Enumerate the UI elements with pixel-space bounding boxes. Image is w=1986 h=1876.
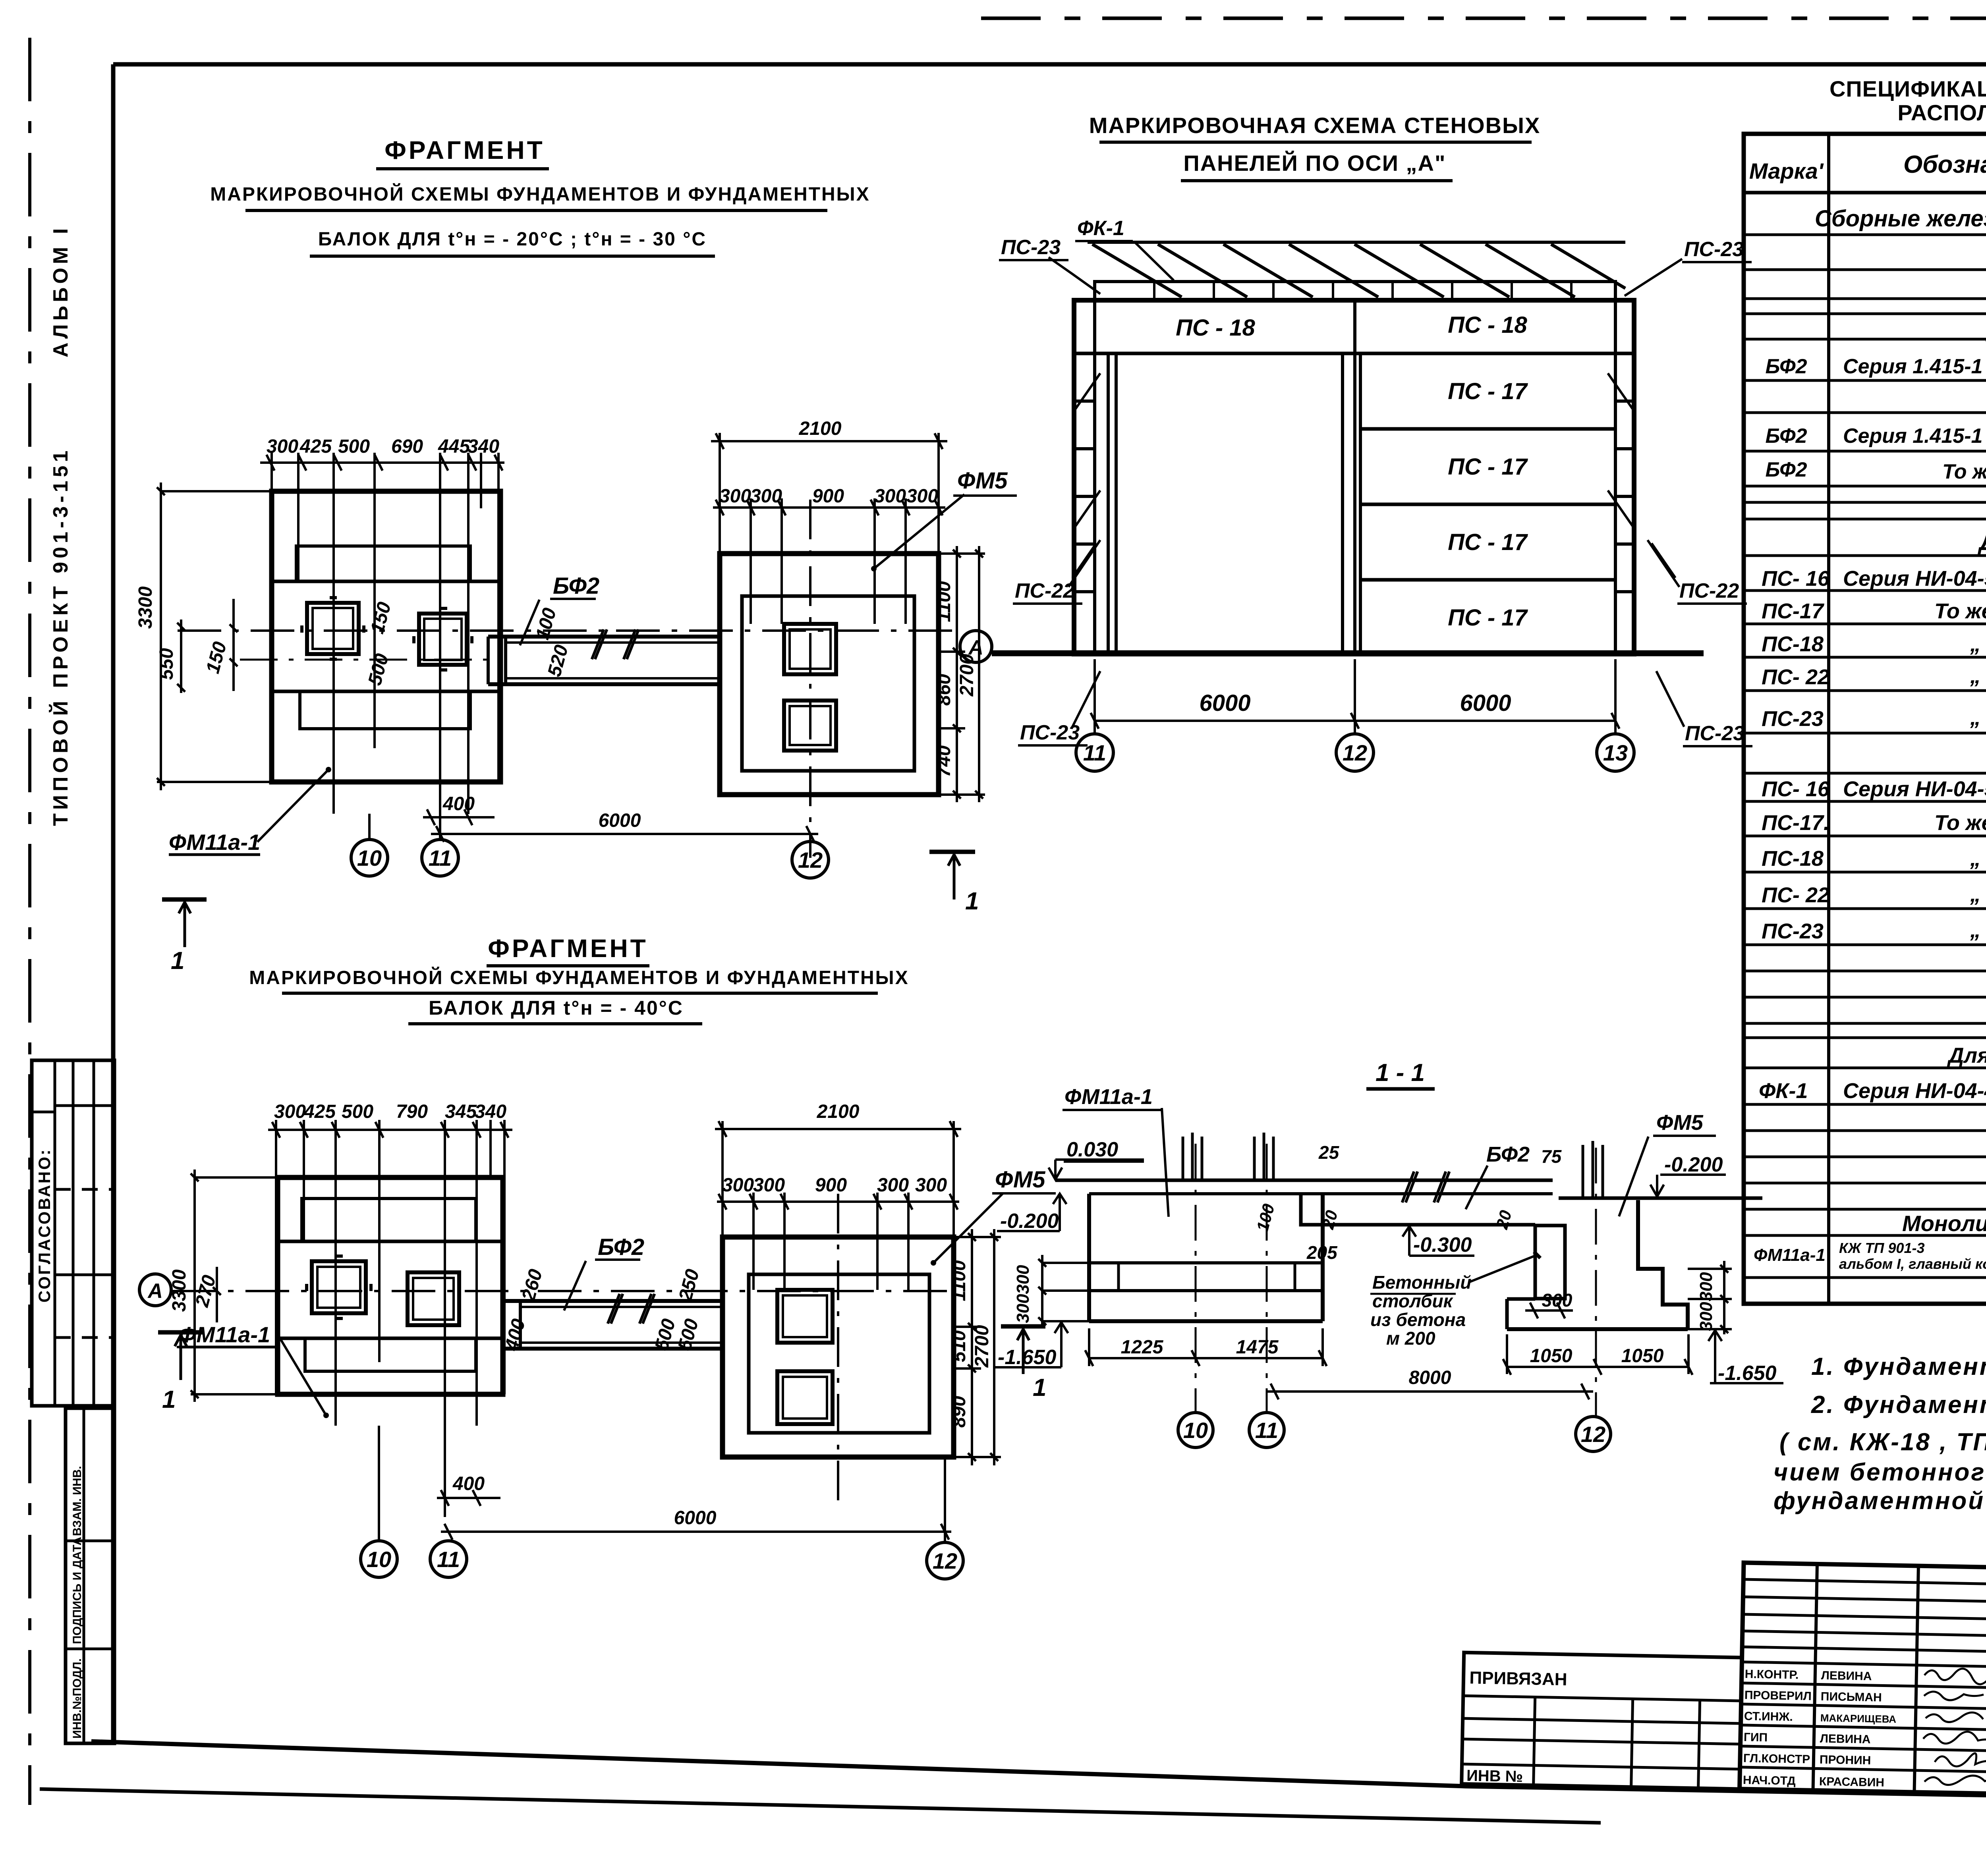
anchor bolts column 10 xyxy=(1183,1133,1202,1180)
FM5 right dims 1100 860 740 2700 xyxy=(939,546,985,802)
beam BF2 between foundations xyxy=(488,629,720,684)
plan2 dim 400 xyxy=(437,1490,500,1506)
svg-text:МАКАРИЩЕВА: МАКАРИЩЕВА xyxy=(1820,1712,1897,1725)
axis circle 11 xyxy=(422,840,458,876)
svg-text:550: 550 xyxy=(156,648,177,680)
svg-text:3300: 3300 xyxy=(169,1269,190,1312)
svg-text:ФМ5: ФМ5 xyxy=(995,1167,1045,1193)
foundation FM11a-1 outer outline xyxy=(157,491,500,782)
svg-text:340: 340 xyxy=(475,1101,506,1122)
svg-text:2100: 2100 xyxy=(817,1101,860,1122)
level mark -0.300 xyxy=(1403,1226,1474,1256)
svg-text:900: 900 xyxy=(812,486,844,507)
plan2 footing A xyxy=(307,1256,371,1318)
plan2 FM5 footing D xyxy=(777,1371,833,1424)
svg-text:300: 300 xyxy=(1696,1302,1716,1331)
svg-text:11: 11 xyxy=(1255,1418,1278,1443)
signature rows xyxy=(1740,1662,1986,1772)
plan1 label underlines xyxy=(550,496,1017,599)
svg-text:„: „ xyxy=(1970,664,1981,688)
svg-text:ПС-18: ПС-18 xyxy=(1762,847,1824,870)
FM5 footing D xyxy=(784,701,836,751)
svg-text:340: 340 xyxy=(468,436,499,457)
svg-text:1100: 1100 xyxy=(933,581,954,622)
svg-text:БФ2: БФ2 xyxy=(1766,458,1807,481)
svg-text:чием бетонного столбика для: чием бетонного столбика для опирания xyxy=(1773,1459,1986,1486)
svg-text:БАЛОК ДЛЯ t°н = - 20°С ; t°н =: БАЛОК ДЛЯ t°н = - 20°С ; t°н = - 30 °С xyxy=(318,229,707,250)
svg-text:ПРОНИН: ПРОНИН xyxy=(1820,1753,1871,1767)
svg-text:Серия 1.415-1 Вып.1: Серия 1.415-1 Вып.1 xyxy=(1843,355,1986,378)
specification table grid xyxy=(1744,134,1986,1304)
svg-text:1: 1 xyxy=(965,888,979,915)
plan1 grid extension lines xyxy=(272,453,498,838)
foundation FM11a-1 outline plan2 xyxy=(191,1177,503,1394)
plan2 FM5 dim row 300 300 900 300 300 xyxy=(717,1193,959,1290)
svg-text:Бетонный: Бетонный xyxy=(1372,1272,1472,1293)
title of wall panel marking scheme xyxy=(1089,113,1541,181)
svg-text:2700: 2700 xyxy=(972,1325,993,1368)
elevation main outline xyxy=(1074,300,1634,654)
svg-text:ПИСЬМАН: ПИСЬМАН xyxy=(1821,1690,1882,1704)
svg-text:11: 11 xyxy=(1083,740,1106,765)
svg-text:900: 900 xyxy=(815,1175,847,1196)
post dim 300 xyxy=(1525,1303,1573,1318)
svg-text:„: „ xyxy=(1970,632,1981,656)
column axes verticals xyxy=(1196,1144,1267,1413)
svg-text:300: 300 xyxy=(915,1175,947,1196)
plan2 label underlines xyxy=(177,1193,1056,1347)
svg-text:6000: 6000 xyxy=(674,1507,717,1529)
signature table verticals xyxy=(1813,1564,1986,1794)
svg-text:То же: То же xyxy=(1934,599,1986,623)
right foundation section FM5 xyxy=(1507,1200,1688,1329)
level mark 0.030 xyxy=(1049,1160,1144,1179)
plan1 dim 6000 xyxy=(431,826,818,842)
plan1 top dimension line 300 425 500 690 445 340 xyxy=(260,455,504,471)
svg-text:ПС-17.: ПС-17. xyxy=(1762,811,1830,835)
title of fragment scheme -40C xyxy=(249,934,909,1024)
svg-text:ВЗАМ. ИНВ.: ВЗАМ. ИНВ. xyxy=(71,1466,84,1536)
roof hatch diagonals xyxy=(1088,242,1625,297)
left margin: inventory strip table xyxy=(66,1408,114,1743)
svg-text:БФ2: БФ2 xyxy=(1766,425,1807,448)
svg-text:А: А xyxy=(147,1280,163,1303)
floor line right (-0.200) xyxy=(1559,1197,1762,1200)
beam BF2 in section xyxy=(1301,1172,1535,1225)
svg-text:ФМ11а-1: ФМ11а-1 xyxy=(1754,1245,1826,1265)
svg-text:ГИП: ГИП xyxy=(1744,1731,1768,1744)
level mark -0.200 right xyxy=(1650,1175,1726,1197)
plan2 FM5 dim 2100 xyxy=(715,1121,961,1237)
plan2 upper step xyxy=(302,1199,476,1241)
svg-text:10: 10 xyxy=(1183,1418,1208,1443)
svg-text:ПС-23: ПС-23 xyxy=(1020,721,1080,744)
svg-text:300: 300 xyxy=(1013,1294,1033,1323)
svg-text:890: 890 xyxy=(949,1396,970,1428)
svg-text:ПС- 16: ПС- 16 xyxy=(1762,567,1830,591)
svg-text:12: 12 xyxy=(1343,740,1367,765)
svg-text:ПС-23: ПС-23 xyxy=(1762,919,1824,943)
pривязан table xyxy=(1462,1652,1742,1789)
svg-text:-1.650: -1.650 xyxy=(998,1346,1057,1369)
svg-text:300: 300 xyxy=(906,486,938,507)
svg-text:БФ2: БФ2 xyxy=(1486,1143,1530,1166)
svg-text:11: 11 xyxy=(429,845,452,870)
svg-text:БФ2: БФ2 xyxy=(598,1234,644,1260)
plan2 section mark right xyxy=(1001,1326,1045,1374)
plan2 lower step xyxy=(305,1338,476,1371)
svg-text:300: 300 xyxy=(750,486,782,507)
svg-text:БАЛОК ДЛЯ t°н = - 40°С: БАЛОК ДЛЯ t°н = - 40°С xyxy=(429,997,684,1019)
PS-18 row line xyxy=(1074,352,1634,355)
svg-text:ФМ5: ФМ5 xyxy=(957,468,1008,494)
section title 1-1 underline xyxy=(1366,1087,1435,1091)
sheet bottom edge line xyxy=(40,1789,1601,1823)
elevation panel texts xyxy=(1176,312,1528,716)
svg-text:СОГЛАСОВАНО:: СОГЛАСОВАНО: xyxy=(35,1148,54,1303)
svg-text:альбом I, главный корпус: альбом I, главный корпус xyxy=(1839,1256,1986,1272)
svg-text:Для t°н: - 20°С; t°н = - 30°С: Для t°н: - 20°С; t°н = - 30°С; t°н = - 4… xyxy=(1947,1044,1986,1067)
plan2 top dimension line 300 425 500 790 345 340 xyxy=(268,1122,512,1138)
level mark -1.650 left xyxy=(995,1322,1068,1367)
section texts xyxy=(998,1059,1777,1388)
svg-text:Серия 1.415-1 Вып.1: Серия 1.415-1 Вып.1 xyxy=(1843,425,1986,448)
axis circle texts plan1 xyxy=(357,845,823,872)
svg-text:БФ2: БФ2 xyxy=(1766,355,1807,378)
section axis circles xyxy=(1178,1413,1611,1451)
svg-text:ПРИВЯЗАН: ПРИВЯЗАН xyxy=(1469,1668,1567,1689)
BF2 label leader xyxy=(520,600,539,645)
svg-text:1050: 1050 xyxy=(1530,1345,1573,1366)
specification table title xyxy=(1830,76,1986,125)
frieze stones band FK-1 xyxy=(1095,282,1615,300)
svg-text:МАРКИРОВОЧНОЙ СХЕМЫ ФУНДАМЕНТО: МАРКИРОВОЧНОЙ СХЕМЫ ФУНДАМЕНТОВ И ФУНДАМ… xyxy=(249,967,909,988)
svg-text:Марка': Марка' xyxy=(1749,158,1824,183)
svg-text:1 - 1: 1 - 1 xyxy=(1376,1059,1425,1087)
svg-text:300: 300 xyxy=(877,1175,909,1196)
spec row: FK-1 xyxy=(1759,1079,1986,1103)
elevation axis circles xyxy=(960,631,1634,771)
svg-text:690: 690 xyxy=(391,436,423,457)
svg-text:ТИПОВОЙ ПРОЕКТ 901-3-151: ТИПОВОЙ ПРОЕКТ 901-3-151 xyxy=(49,447,72,826)
plan2 footing B xyxy=(408,1272,459,1325)
svg-text:БФ2: БФ2 xyxy=(553,573,599,599)
svg-text:0.030: 0.030 xyxy=(1066,1138,1118,1161)
FM11a-1 label leader xyxy=(169,767,331,855)
signature rows texts xyxy=(1743,1668,1897,1789)
plan2 axis circle 11 xyxy=(430,1541,467,1577)
column footing B xyxy=(414,608,472,670)
svg-text:300: 300 xyxy=(267,436,298,457)
svg-text:ПОДПИСЬ И ДАТА: ПОДПИСЬ И ДАТА xyxy=(71,1537,84,1644)
svg-text:„: „ xyxy=(1970,847,1981,870)
signature squiggles xyxy=(1922,1668,1986,1786)
section circle texts xyxy=(1183,1418,1605,1447)
svg-text:75: 75 xyxy=(1541,1146,1562,1167)
svg-text:ПС - 17: ПС - 17 xyxy=(1448,529,1528,555)
plan2 axis circle 10 xyxy=(361,1426,397,1577)
svg-text:ПАНЕЛЕЙ ПО ОСИ „А": ПАНЕЛЕЙ ПО ОСИ „А" xyxy=(1183,151,1446,176)
svg-text:2100: 2100 xyxy=(799,418,842,439)
plan2 FM5 outline xyxy=(723,1237,954,1457)
svg-text:Серия НИ-04-4 Вып.23: Серия НИ-04-4 Вып.23 xyxy=(1843,1079,1986,1103)
plan2 FM5 footing C xyxy=(777,1290,833,1343)
plan2 dimension texts xyxy=(162,1101,1046,1529)
svg-text:300: 300 xyxy=(1542,1290,1573,1310)
axis A line (dash-dot) xyxy=(178,629,960,632)
svg-text:1050: 1050 xyxy=(1621,1345,1664,1366)
PS-17 row lines xyxy=(1360,429,1615,580)
svg-text:РАСПОЛОЖЕННОЙ НА ЛИСТЕ: РАСПОЛОЖЕННОЙ НА ЛИСТЕ xyxy=(1897,100,1986,125)
svg-text:То же: То же xyxy=(1934,811,1986,835)
svg-text:425: 425 xyxy=(303,1101,336,1122)
section label underlines xyxy=(1063,1110,1716,1162)
plan2 FM11a-1 label leader xyxy=(179,1334,329,1418)
svg-text:То же: То же xyxy=(1942,460,1986,483)
svg-text:300: 300 xyxy=(1013,1265,1033,1294)
svg-text:МАРКИРОВОЧНОЙ СХЕМЫ ФУНДАМЕНТО: МАРКИРОВОЧНОЙ СХЕМЫ ФУНДАМЕНТОВ И ФУНДАМ… xyxy=(210,183,870,205)
plan2 circle texts xyxy=(147,1280,957,1573)
svg-text:ИНВ.№ПОДЛ.: ИНВ.№ПОДЛ. xyxy=(71,1658,84,1739)
spec rows: PS group 1 xyxy=(1762,567,1986,731)
section mark 1 left xyxy=(162,899,207,947)
foundation FM5 outline xyxy=(720,554,939,795)
svg-text:КРАСАВИН: КРАСАВИН xyxy=(1819,1775,1885,1789)
svg-text:Серия НИ-04-5 Вып.6: Серия НИ-04-5 Вып.6 xyxy=(1843,777,1986,801)
svg-text:510: 510 xyxy=(949,1330,970,1362)
svg-text:1: 1 xyxy=(171,947,184,975)
plan2 right dims 1100 510 890 2700 xyxy=(954,1229,1001,1465)
section label leaders xyxy=(1162,1108,1648,1282)
spec row: BF2 F6B-12 xyxy=(1766,413,1986,450)
floor slab lines left xyxy=(1055,1180,1553,1194)
svg-text:ФМ11а-1: ФМ11а-1 xyxy=(179,1322,270,1347)
title of fragment scheme -20C -30C xyxy=(210,136,870,256)
svg-text:ПС-22: ПС-22 xyxy=(1015,579,1074,602)
plan2 dim 6000 xyxy=(441,1524,951,1540)
plan2 section mark left xyxy=(158,1332,203,1380)
svg-text:ФМ11а-1: ФМ11а-1 xyxy=(1064,1085,1153,1109)
svg-text:12: 12 xyxy=(798,847,823,872)
svg-text:Сборные железобетонные элемент: Сборные железобетонные элементы xyxy=(1815,206,1986,232)
svg-text:ПС- 22: ПС- 22 xyxy=(1762,665,1830,689)
axis circle 12 xyxy=(792,841,829,878)
svg-text:6000: 6000 xyxy=(599,810,641,831)
foundation FM11a-1 lower step xyxy=(300,691,470,729)
svg-text:205: 205 xyxy=(1306,1242,1338,1263)
plan2 axis circle A xyxy=(139,1274,171,1306)
svg-text:Серия НИ-04-5 Вып.5: Серия НИ-04-5 Вып.5 xyxy=(1843,567,1986,591)
spec row: FM11a-1 xyxy=(1754,1240,1986,1272)
svg-text:ПС-23: ПС-23 xyxy=(1684,238,1744,261)
svg-text:ПС-23: ПС-23 xyxy=(1762,707,1824,731)
svg-text:13: 13 xyxy=(1603,740,1628,765)
axis 12 vertical xyxy=(1595,1148,1597,1417)
concrete post label xyxy=(1370,1272,1472,1349)
left margin: approval stamp table xyxy=(32,1060,114,1406)
svg-text:ПС-22: ПС-22 xyxy=(1679,579,1739,602)
svg-text:ПС-23: ПС-23 xyxy=(1001,236,1061,259)
svg-text:ПС - 18: ПС - 18 xyxy=(1448,312,1527,338)
svg-text:25: 25 xyxy=(1318,1142,1340,1163)
svg-text:6000: 6000 xyxy=(1460,690,1511,716)
svg-text:ПС - 17: ПС - 17 xyxy=(1448,605,1528,631)
level mark -1.650 right xyxy=(1708,1330,1783,1383)
center divider xyxy=(1355,300,1360,654)
svg-text:400: 400 xyxy=(452,1473,485,1494)
plan1 dim 400 xyxy=(423,809,495,825)
svg-text:1100: 1100 xyxy=(949,1260,970,1301)
svg-text:фундаментной балки БФ2 .: фундаментной балки БФ2 . xyxy=(1773,1487,1986,1515)
svg-text:СТ.ИНЖ.: СТ.ИНЖ. xyxy=(1744,1710,1793,1724)
FM5 label leader xyxy=(874,494,964,569)
svg-text:1: 1 xyxy=(162,1386,176,1413)
svg-text:ЛЕВИНА: ЛЕВИНА xyxy=(1821,1669,1872,1683)
end strips xyxy=(1074,300,1634,654)
svg-text:-0.300: -0.300 xyxy=(1413,1233,1472,1256)
svg-text:ФМ5: ФМ5 xyxy=(1656,1111,1704,1135)
sheet top dashed edge xyxy=(981,17,1986,20)
svg-text:СПЕЦИФИКАЦИЯ ЭЛЕМЕНТОВ К МАРКИ: СПЕЦИФИКАЦИЯ ЭЛЕМЕНТОВ К МАРКИРОВОЧНОЙ С… xyxy=(1830,76,1986,101)
plan2 left dim 3300 xyxy=(191,1170,221,1402)
svg-text:ПС-23: ПС-23 xyxy=(1685,722,1745,745)
svg-text:3300: 3300 xyxy=(135,586,156,629)
plan1 dimension texts xyxy=(135,418,1008,975)
concrete post xyxy=(1535,1226,1565,1299)
secondary axis line xyxy=(240,659,488,661)
svg-text:ИНВ №: ИНВ № xyxy=(1466,1767,1523,1785)
svg-text:500: 500 xyxy=(338,436,370,457)
elevation side labels xyxy=(1001,217,1745,745)
BF2 label leader plan2 xyxy=(564,1261,586,1310)
spec row: BF2 F6B-2 xyxy=(1766,458,1986,483)
upper empty rows xyxy=(1742,1579,1986,1652)
svg-text:ЛЕВИНА: ЛЕВИНА xyxy=(1820,1732,1871,1746)
svg-text:400: 400 xyxy=(442,793,475,814)
svg-text:445: 445 xyxy=(438,436,470,457)
svg-text:ФРАГМЕНТ: ФРАГМЕНТ xyxy=(488,934,648,963)
anchor bolts column 12 xyxy=(1583,1141,1603,1198)
section bottom dims 1225 1475 xyxy=(1085,1328,1327,1366)
elevation label underlines xyxy=(999,241,1752,746)
svg-text:АЛЬБОМ I: АЛЬБОМ I xyxy=(49,225,72,357)
plan2 axis circle 12 xyxy=(927,1457,963,1579)
svg-text:ПС- 16: ПС- 16 xyxy=(1762,777,1830,801)
level mark -0.200 left xyxy=(997,1194,1066,1231)
svg-text:ГЛ.КОНСТР: ГЛ.КОНСТР xyxy=(1743,1752,1810,1766)
svg-text:860: 860 xyxy=(933,674,954,706)
svg-text:Н.КОНТР.: Н.КОНТР. xyxy=(1745,1668,1799,1681)
label leaders elevation xyxy=(1049,241,1684,727)
svg-text:„: „ xyxy=(1970,918,1981,942)
axis A baseline xyxy=(992,650,1704,656)
svg-text:ПС - 17: ПС - 17 xyxy=(1448,378,1528,404)
svg-text:МАРКИРОВОЧНАЯ СХЕМА СТЕНОВЫХ: МАРКИРОВОЧНАЯ СХЕМА СТЕНОВЫХ xyxy=(1089,113,1541,138)
svg-text:300: 300 xyxy=(874,486,906,507)
anchor bolts column 11 xyxy=(1254,1133,1273,1180)
svg-text:ПС-18: ПС-18 xyxy=(1762,632,1824,656)
svg-text:12: 12 xyxy=(1581,1422,1605,1447)
left foundation section FM11a-1 xyxy=(1089,1194,1323,1321)
svg-text:ПС-17: ПС-17 xyxy=(1762,599,1825,623)
svg-text:НАЧ.ОТД: НАЧ.ОТД xyxy=(1743,1774,1796,1787)
spec table header texts xyxy=(1749,142,1986,187)
section bottom dims 1050 1050 xyxy=(1503,1334,1692,1375)
svg-text:ПС - 18: ПС - 18 xyxy=(1176,315,1255,341)
svg-text:11: 11 xyxy=(437,1547,460,1572)
svg-text:ФК-1: ФК-1 xyxy=(1077,217,1124,240)
svg-text:740: 740 xyxy=(933,745,954,777)
svg-text:1475: 1475 xyxy=(1236,1337,1279,1358)
svg-text:-0.200: -0.200 xyxy=(1664,1153,1723,1176)
svg-text:1225: 1225 xyxy=(1121,1337,1164,1358)
svg-text:345: 345 xyxy=(445,1101,477,1122)
svg-text:6000: 6000 xyxy=(1199,690,1250,716)
title block outline xyxy=(1740,1563,1986,1805)
section left dims 300 300 xyxy=(1038,1255,1089,1328)
svg-text:Монолитные железобетонные конс: Монолитные железобетонные конструкции xyxy=(1902,1211,1986,1236)
plan2 FM5 center vertical xyxy=(837,1194,839,1509)
plan1 left dim 3300 xyxy=(157,483,238,790)
sheet left dash-dot edge xyxy=(28,38,31,1805)
section dim 8000 xyxy=(1267,1384,1593,1399)
section mark 1 right xyxy=(929,852,975,899)
svg-text:„: „ xyxy=(1970,706,1981,730)
svg-text:( см. КЖ-18 , ТП 901 - 3 -: ( см. КЖ-18 , ТП 901 - 3 - 149 альбом I … xyxy=(1779,1428,1986,1456)
plan2 beam BF2 xyxy=(503,1294,723,1349)
plan2 grid extension lines xyxy=(276,1120,504,1517)
svg-text:ПРОВЕРИЛ: ПРОВЕРИЛ xyxy=(1745,1689,1812,1703)
svg-text:м 200: м 200 xyxy=(1386,1328,1435,1349)
plan2 axis A line xyxy=(172,1290,949,1292)
svg-text:А: А xyxy=(968,636,983,659)
svg-text:из бетона: из бетона xyxy=(1370,1309,1466,1330)
svg-text:12: 12 xyxy=(933,1548,957,1573)
column footing A xyxy=(302,598,364,659)
svg-text:ФМ11а-1: ФМ11а-1 xyxy=(169,830,260,855)
svg-text:ФРАГМЕНТ: ФРАГМЕНТ xyxy=(384,136,545,164)
svg-text:1: 1 xyxy=(1033,1374,1046,1401)
svg-text:-1.650: -1.650 xyxy=(1718,1362,1777,1385)
svg-text:300: 300 xyxy=(1696,1272,1716,1301)
foundation FM5 dim 2100 xyxy=(711,433,947,554)
FM5 center axis vertical xyxy=(809,500,811,858)
svg-text:-0.200: -0.200 xyxy=(1000,1210,1059,1233)
svg-text:ПС- 22: ПС- 22 xyxy=(1762,883,1830,907)
svg-text:300: 300 xyxy=(719,486,751,507)
svg-text:Обозначение: Обозначение xyxy=(1903,151,1986,178)
svg-text:„: „ xyxy=(1970,882,1981,906)
elevation dim 6000 6000 xyxy=(1091,659,1619,735)
svg-text:8000: 8000 xyxy=(1409,1367,1451,1388)
svg-text:КЖ ТП 901-3: КЖ ТП 901-3 xyxy=(1839,1240,1924,1256)
FM5 footing C xyxy=(784,624,836,674)
svg-text:10: 10 xyxy=(357,845,382,870)
section right dims 300 300 xyxy=(1688,1261,1732,1334)
plan2 FM5 label leader xyxy=(933,1193,1003,1263)
svg-text:300: 300 xyxy=(722,1175,754,1196)
svg-text:ПС - 17: ПС - 17 xyxy=(1448,454,1528,480)
spec row: BF2 F6B-29 xyxy=(1766,344,1986,381)
svg-text:2. Фундамент ФМ 11а -1 отл: 2. Фундамент ФМ 11а -1 отличается от ФМ … xyxy=(1811,1391,1986,1419)
opening jambs xyxy=(1108,353,1343,652)
axis circle 10 xyxy=(351,814,388,876)
svg-text:1. Фундамент ФМ5 см. КЖ -: 1. Фундамент ФМ5 см. КЖ - 7 xyxy=(1811,1353,1986,1380)
svg-text:10: 10 xyxy=(367,1547,391,1572)
foundation FM11a-1 upper step xyxy=(296,546,470,581)
svg-text:ФК-1: ФК-1 xyxy=(1759,1079,1808,1103)
svg-text:300: 300 xyxy=(753,1175,785,1196)
